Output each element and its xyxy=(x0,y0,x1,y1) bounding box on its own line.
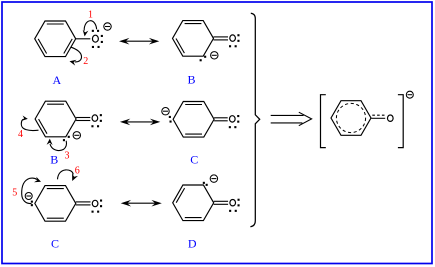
svg-text:A: A xyxy=(52,73,61,87)
svg-text:B: B xyxy=(50,153,58,167)
svg-text:2: 2 xyxy=(83,56,88,67)
svg-text:3: 3 xyxy=(65,150,70,161)
svg-text:B: B xyxy=(187,73,195,87)
svg-text:4: 4 xyxy=(18,129,23,140)
svg-text:5: 5 xyxy=(12,187,17,198)
svg-text:C: C xyxy=(51,236,59,250)
svg-text:1: 1 xyxy=(88,10,93,21)
svg-text:D: D xyxy=(188,236,197,250)
svg-text:C: C xyxy=(190,153,198,167)
svg-text:6: 6 xyxy=(75,166,80,177)
